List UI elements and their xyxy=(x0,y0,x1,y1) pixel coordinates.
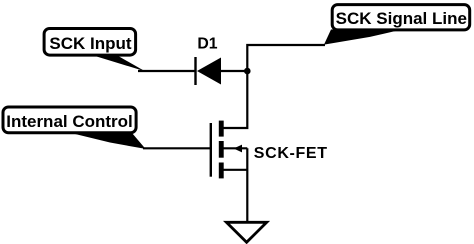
transistor SCK-FET drain channel bar xyxy=(219,121,224,137)
wire gate lead from Internal Control callout xyxy=(143,147,212,149)
callout tail: SCK Signal Line xyxy=(324,30,402,45)
svg-text:SCK-FET: SCK-FET xyxy=(254,145,328,162)
transistor SCK-FET body channel bar xyxy=(219,141,224,158)
wire from node up and right to SCK Signal Line callout xyxy=(247,45,325,71)
transistor SCK-FET source channel bar xyxy=(219,163,224,179)
wire from node down to Q1 drain xyxy=(223,71,247,128)
wire body lead xyxy=(223,147,247,149)
node junction dot xyxy=(244,68,251,75)
diode D1 body (triangle pointing left) xyxy=(197,58,221,85)
diode D1 cathode bar xyxy=(194,57,196,85)
wire from SCK Input callout to diode D1 cathode xyxy=(138,70,195,72)
callout box: SCK Input xyxy=(44,29,136,56)
callout box: Internal Control xyxy=(3,107,136,133)
svg-text:SCK Signal Line: SCK Signal Line xyxy=(336,9,467,28)
transistor SCK-FET body arrow (points left) xyxy=(234,145,242,153)
wire from diode D1 anode to node xyxy=(220,70,247,72)
callout box: SCK Signal Line xyxy=(332,5,470,30)
transistor SCK-FET gate line xyxy=(210,123,212,177)
svg-text:Internal Control: Internal Control xyxy=(6,112,133,131)
ground xyxy=(226,222,266,242)
svg-text:SCK Input: SCK Input xyxy=(49,34,131,53)
wire from body/source down to ground xyxy=(246,148,248,221)
svg-text:D1: D1 xyxy=(197,36,217,53)
callout tail: Internal Control xyxy=(71,133,146,149)
wire source lead xyxy=(223,169,247,171)
callout tail: SCK Input xyxy=(91,55,145,72)
